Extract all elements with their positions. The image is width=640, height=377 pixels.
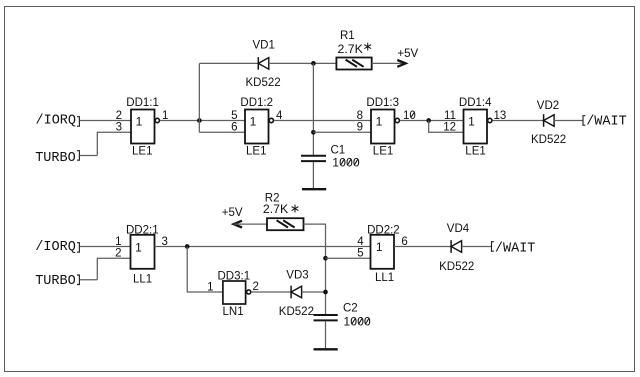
- svg-text:5: 5: [231, 110, 237, 122]
- svg-text:1: 1: [250, 115, 257, 129]
- wire node A vertical (up to VD1, down to pin 6): [198, 63, 200, 132]
- svg-text:3: 3: [116, 121, 122, 133]
- svg-text:KD522: KD522: [439, 261, 474, 273]
- svg-text:2: 2: [115, 247, 121, 259]
- svg-text:9: 9: [357, 121, 363, 133]
- wire DD2:2 out to VD4: [394, 246, 451, 248]
- wire to DD1:2 pin 6: [199, 131, 245, 133]
- svg-text:+5V: +5V: [397, 48, 418, 60]
- power +5V (bottom) arrow: [222, 207, 243, 228]
- svg-text:1: 1: [135, 241, 142, 255]
- diode VD4: [439, 223, 474, 273]
- node TURBO (top) label: [35, 151, 79, 166]
- svg-text:VD1: VD1: [253, 40, 275, 52]
- wire DD1:4 out to VD2: [493, 120, 544, 122]
- wire VD3 to node G: [302, 291, 326, 293]
- wire DD3:1 out to VD3: [251, 291, 291, 293]
- wire TURBO riser to pin 2: [97, 258, 130, 280]
- wire node E down to DD3:1 pin 1: [187, 247, 223, 293]
- svg-text:TURBO: TURBO: [35, 151, 76, 166]
- node C junction dot (pin 9): [311, 130, 316, 135]
- node B junction dot (R1/VD1/C1): [311, 61, 316, 66]
- power +5V (top) arrow: [397, 48, 418, 67]
- op DD1:4 NOR gate: [459, 97, 492, 158]
- node TURBO (bottom) label: [35, 274, 79, 289]
- diode VD1: [246, 40, 281, 89]
- svg-text:LE1: LE1: [132, 146, 152, 158]
- capacitor C2: [314, 303, 371, 329]
- svg-text:LL1: LL1: [133, 274, 152, 286]
- inverter DD3:1: [218, 271, 251, 318]
- svg-text:2: 2: [116, 110, 122, 122]
- op DD2:2 OR gate: [367, 225, 400, 285]
- node A junction dot: [197, 118, 202, 123]
- svg-text:/WAIT: /WAIT: [586, 114, 627, 129]
- svg-text:LE1: LE1: [465, 146, 485, 158]
- svg-text:DD1:3: DD1:3: [366, 97, 399, 109]
- svg-text:TURBO: TURBO: [35, 274, 76, 289]
- svg-text:LE1: LE1: [373, 146, 393, 158]
- wire DD1:3 out to DD1:4 pin 11: [400, 120, 464, 122]
- op DD1:3 NOR gate: [366, 97, 399, 158]
- svg-text:4: 4: [357, 236, 364, 248]
- svg-text:1: 1: [136, 115, 143, 129]
- wire arrow to R2: [234, 223, 267, 225]
- svg-text:12: 12: [443, 121, 456, 133]
- wire VD2 to /WAIT: [554, 120, 583, 122]
- node G junction dot (VD3/C2): [323, 290, 328, 295]
- diode VD2: [531, 100, 566, 146]
- node E junction dot: [185, 244, 190, 249]
- svg-text:LN1: LN1: [223, 306, 244, 318]
- ground (C1): [302, 188, 326, 190]
- resistor R1: [336, 30, 372, 70]
- svg-text:R1: R1: [340, 30, 355, 42]
- svg-text:8: 8: [357, 110, 363, 122]
- wire TURBO stub: [80, 155, 97, 157]
- svg-text:DD2:1: DD2:1: [126, 225, 159, 237]
- svg-text:∗: ∗: [290, 201, 300, 215]
- svg-text:11: 11: [444, 110, 456, 122]
- svg-text:/WAIT: /WAIT: [495, 241, 536, 256]
- svg-text:1: 1: [207, 281, 213, 293]
- wire /IORQ to DD1:1 pin 2: [80, 120, 131, 122]
- svg-text:LL1: LL1: [375, 272, 394, 284]
- svg-text:2.7K: 2.7K: [338, 42, 364, 56]
- svg-text:DD1:2: DD1:2: [240, 97, 273, 109]
- node D junction dot: [426, 118, 431, 123]
- wire TURBO vertical riser: [97, 132, 131, 155]
- svg-text:VD2: VD2: [537, 100, 559, 112]
- wire TURBO stub (bottom): [80, 279, 97, 281]
- node /IORQ (top) label: [36, 113, 80, 128]
- wire C1 to ground: [312, 162, 314, 188]
- wire DD2:1 out to DD2:2 pin 4: [155, 246, 371, 248]
- node /WAIT (top) label: [583, 114, 627, 129]
- svg-text:C2: C2: [343, 303, 358, 315]
- resistor R2: [263, 192, 304, 230]
- svg-text:1: 1: [376, 240, 383, 254]
- svg-text:1: 1: [468, 115, 475, 129]
- svg-text:KD522: KD522: [246, 77, 281, 89]
- diode VD3: [279, 270, 314, 318]
- wire to DD1:3 pin 9: [313, 131, 371, 133]
- ground (C2): [314, 348, 338, 350]
- wire C2 to ground: [325, 321, 327, 348]
- op DD1:2 NOR gate: [240, 97, 273, 158]
- svg-text:1: 1: [115, 236, 121, 248]
- svg-text:KD522: KD522: [279, 306, 314, 318]
- svg-text:LE1: LE1: [246, 146, 266, 158]
- wire node B vertical down to C1: [312, 63, 314, 155]
- wire R1 to +5V arrow: [372, 62, 405, 64]
- svg-text:+5V: +5V: [222, 207, 243, 219]
- wire node A to VD1 cathode: [199, 62, 258, 64]
- svg-text:2.7K: 2.7K: [263, 202, 289, 216]
- wire VD1 anode to R1: [269, 62, 337, 64]
- wire /IORQ to DD2:1 pin 1: [80, 246, 131, 248]
- svg-text:DD3:1: DD3:1: [218, 271, 251, 283]
- svg-text:VD3: VD3: [286, 270, 308, 282]
- svg-text:2: 2: [253, 281, 259, 293]
- op DD1:1 NOR gate: [126, 97, 159, 158]
- wire node F to DD2:2 pin 5: [326, 257, 371, 259]
- node /IORQ (bottom) label: [35, 240, 79, 255]
- svg-text:1: 1: [376, 115, 383, 129]
- svg-text:DD1:4: DD1:4: [459, 97, 492, 109]
- svg-text:KD522: KD522: [531, 134, 566, 146]
- wire VD4 to /WAIT: [462, 246, 492, 248]
- wire node D to DD1:4 pin 12: [429, 121, 464, 133]
- svg-text:∗: ∗: [363, 40, 373, 54]
- svg-text:/IORQ: /IORQ: [35, 240, 76, 255]
- svg-text:DD2:2: DD2:2: [367, 225, 400, 237]
- svg-text:VD4: VD4: [447, 223, 470, 235]
- node /WAIT (bottom) label: [492, 241, 536, 256]
- svg-text:/IORQ: /IORQ: [36, 113, 77, 128]
- svg-text:DD1:1: DD1:1: [126, 97, 159, 109]
- svg-text:6: 6: [231, 121, 237, 133]
- wire DD1:1 out to DD1:2 pin 5: [160, 120, 245, 122]
- op DD2:1 OR gate: [126, 225, 159, 286]
- wire DD1:2 out to DD1:3 pin 8: [274, 120, 371, 122]
- node F junction dot (pin 5): [323, 256, 328, 261]
- capacitor C1: [301, 145, 360, 170]
- svg-text:5: 5: [357, 247, 363, 259]
- wire R2 to vertical: [304, 224, 326, 314]
